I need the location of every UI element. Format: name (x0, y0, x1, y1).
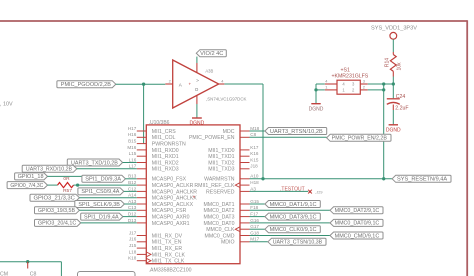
svg-text:F17: F17 (250, 212, 258, 217)
svg-text:MMC0_CMD/9,1C: MMC0_CMD/9,1C (335, 233, 380, 239)
flag MMC0_CMD/9,1C (330, 232, 383, 239)
svg-text:RESERVED: RESERVED (206, 189, 235, 195)
S1 pin 2 (360, 89, 368, 91)
U10 pin K17 MII1_TXD0 (208, 145, 259, 154)
U10 pin B15 PWRONRSTN (128, 139, 186, 148)
svg-text:CM: CM (0, 271, 8, 276)
wire MMC0_DAT0 to flag (250, 222, 331, 224)
svg-text:PMIC_POWR_EN/2,2B: PMIC_POWR_EN/2,2B (332, 136, 388, 142)
svg-text:.TESTOUT: .TESTOUT (280, 187, 305, 193)
flag GPIO3_21/3,3C (30, 194, 79, 201)
sheet frame right border (466, 20, 468, 276)
svg-text:UART3_RXD/10,2B: UART3_RXD/10,2B (26, 167, 73, 173)
junction S1 net / SYS_RESETN (382, 177, 385, 180)
svg-text:MCASP0_AHCLKR: MCASP0_AHCLKR (152, 189, 198, 195)
flag SPI1_D0/9,3A (82, 175, 126, 182)
flag MMC0_DAT3/9,1C (265, 213, 320, 220)
svg-text:J16: J16 (129, 237, 137, 242)
wire S1 pin4 left (316, 83, 325, 85)
wire C24 to DGND (392, 110, 394, 124)
junction S1 left pins (314, 88, 317, 91)
wire MMC0_DAT2 to flag (250, 209, 331, 211)
U10 pin M17 MDIO (221, 237, 260, 246)
wire WARMRSTN row to SYS_RESETN flag (250, 178, 393, 180)
svg-text:MCASP0_AXR0: MCASP0_AXR0 (152, 215, 190, 221)
U10 pin K15 MII1_TXD2 (208, 157, 259, 166)
junction bottom-left (26, 260, 29, 263)
wire UART3_RXD to pin L17 (77, 168, 137, 170)
U10 pin G15 MMC0_DAT1 (203, 199, 259, 208)
svg-text:MMC0_DAT2/9,1C: MMC0_DAT2/9,1C (335, 208, 380, 214)
svg-text:MII1_TX_CLK: MII1_TX_CLK (152, 259, 185, 265)
svg-text:A10: A10 (250, 174, 259, 179)
ground DGND (above U10) (190, 118, 205, 126)
svg-text:J17: J17 (129, 230, 137, 235)
U10 pin L16 MII1_RXD2 (129, 157, 179, 166)
svg-text:0R: 0R (63, 176, 70, 182)
svg-text:K18: K18 (128, 256, 137, 261)
wire MMC0_DAT1 to flag (250, 203, 265, 205)
U10 pin J17 MII1_RX_DV (129, 230, 183, 239)
wire GPIO1_18 to SPI1_D0 flag (48, 175, 83, 177)
wire S1 pin4 down (315, 84, 317, 90)
svg-text:M18: M18 (250, 126, 259, 131)
svg-text:>: > (196, 78, 199, 84)
flag PMIC_PGOOD/2,2B (57, 81, 116, 88)
svg-text:MMC0_DAT0/9,1C: MMC0_DAT0/9,1C (335, 221, 380, 227)
svg-text:MMC0_DAT0: MMC0_DAT0 (203, 221, 234, 227)
U10 pin H17 MII1_CRS (128, 126, 176, 135)
svg-text:L15: L15 (129, 151, 137, 156)
wire R57 to junction (74, 184, 78, 186)
U10 pin C13 MCASP0_FSR (128, 205, 187, 214)
U10 pin D12 MCASP0_AXR0 (128, 212, 190, 221)
U10 pin M16 MII1_RXD0 (127, 145, 178, 154)
svg-text:MII1_CRS: MII1_CRS (152, 129, 176, 135)
svg-text:SPI1_D1/9,4A: SPI1_D1/9,4A (84, 214, 119, 220)
svg-text:SYS_VDD1_3P3V: SYS_VDD1_3P3V (371, 26, 417, 32)
wire SPI1_SCLK to pin A13 (124, 203, 136, 205)
U10 pin A13 MCASP0_ACLKX (128, 199, 193, 208)
junction SPI1_CS0 net (76, 183, 79, 186)
svg-text:K17: K17 (250, 145, 259, 150)
wire gate output down (262, 84, 264, 179)
svg-text:MII1_RX_DV: MII1_RX_DV (152, 233, 183, 239)
svg-text:MII1_RXD0: MII1_RXD0 (152, 148, 179, 154)
wire bottom-left vertical (60, 262, 62, 276)
gate output pin 4 (219, 83, 225, 85)
wire supply to R14 (392, 39, 394, 52)
svg-text:MCASP0_AXR1: MCASP0_AXR1 (152, 221, 190, 227)
U10 pin A10 WARMRSTN (204, 174, 259, 183)
flag SYS_RESETN/9,4A (392, 175, 451, 182)
op-amp gate A3B SN74LVC1G97DCK (165, 60, 246, 108)
wire GPIO0_7 to R57 (48, 184, 58, 186)
svg-text:D13: D13 (128, 218, 137, 223)
U10 pin A14 MCASP0_AHCLKX (128, 193, 197, 202)
U10 pin L15 MII1_RXD1 (129, 151, 179, 160)
wire SPI1_CS0 to pin C12 (124, 190, 137, 192)
svg-text:MMC0_DAT3: MMC0_DAT3 (203, 215, 234, 221)
svg-text:MDC: MDC (223, 129, 235, 135)
U10 pin K18 MII1_TX_CLK (128, 256, 185, 265)
svg-text:MII1_RX_ER: MII1_RX_ER (152, 246, 183, 252)
wire MMC0_CMD to flag (250, 235, 331, 237)
svg-text:PMIC_POWER_EN: PMIC_POWER_EN (189, 135, 235, 141)
U10 pin K16 MII1_TXD1 (208, 151, 259, 160)
wire MMC0_CLK to flag (250, 228, 265, 230)
gate input pin 2 (165, 83, 172, 85)
svg-text:K16: K16 (250, 151, 259, 156)
svg-text:MII1_TXD2: MII1_TXD2 (208, 160, 234, 166)
ground DGND (below S1) (309, 104, 324, 113)
U10 pin L18 MII1_RX_CLK (129, 249, 186, 258)
clipped flag bottom centre (78, 272, 136, 276)
svg-text:DGND: DGND (386, 127, 401, 133)
U10 pin B12 MCASP0_ACLKR (128, 180, 193, 189)
svg-text:C12: C12 (128, 186, 137, 191)
svg-text:B13: B13 (128, 174, 137, 179)
U10 pin D13 MCASP0_AXR1 (128, 218, 190, 227)
U10 pin G18 MMC0_CMD (205, 230, 260, 239)
flag UART3_RXD/10,2B (22, 165, 77, 172)
svg-text:K15: K15 (250, 157, 259, 162)
wire gate top pin to VIO/2 flag (196, 57, 198, 63)
svg-text:MCASP0_AHCLKX: MCASP0_AHCLKX (152, 196, 198, 202)
wire SPI1_D0 to pin B13 (125, 178, 136, 180)
wire S1 net down to SYS_RESETN (383, 84, 385, 179)
U10 pin A3 RESERVED (206, 186, 256, 195)
svg-text:H18: H18 (250, 180, 259, 185)
S1 pin 1 (325, 89, 337, 91)
svg-text:MII1_TX_EN: MII1_TX_EN (152, 240, 182, 246)
flag UART3_TXD/10,2B (67, 159, 122, 166)
wire gate bottom pin to DGND (196, 104, 198, 118)
wire S1 pin2 right (368, 89, 384, 91)
svg-text:.U10/3B6: .U10/3B6 (149, 120, 170, 126)
S1 pin 4 (325, 83, 337, 85)
svg-text:L16: L16 (129, 157, 137, 162)
svg-text:GPIO1_18: GPIO1_18 (18, 174, 44, 180)
svg-text:UART3_CTSN/10,3B: UART3_CTSN/10,3B (273, 240, 323, 246)
svg-text:MMC0_CLK0/9,1C: MMC0_CLK0/9,1C (270, 227, 317, 233)
wire GPIO3_19 to pin C13 (79, 209, 136, 211)
svg-text:UART3_TXD/10,2B: UART3_TXD/10,2B (71, 160, 118, 166)
U10 pin F18 MMC0_DAT2 (203, 205, 258, 214)
IC U10 AM3358BZCZ100 body (146, 125, 240, 264)
svg-text:SPI1_D0/9,3A: SPI1_D0/9,3A (85, 177, 121, 183)
U10 pin J18 MII1_TXD3 (208, 164, 258, 173)
U10 pin H16 MII1_COL (128, 132, 176, 141)
wire UART3_TXD to pin L16 (123, 162, 137, 164)
svg-text:A3: A3 (250, 186, 256, 191)
wire SPI1_D1 to pin D12 (123, 216, 137, 218)
svg-text:MMC0_DAT2: MMC0_DAT2 (203, 208, 234, 214)
svg-text:MMC0_DAT3/9,1C: MMC0_DAT3/9,1C (270, 214, 317, 220)
flag UART3_CTSN/10,3B (268, 238, 326, 245)
svg-text:MII1_RXD3: MII1_RXD3 (152, 167, 179, 173)
svg-text:SPI1_SCLK/9,3B: SPI1_SCLK/9,3B (78, 202, 120, 208)
svg-text:GPIO3_19/3,5B: GPIO3_19/3,5B (38, 208, 76, 214)
svg-text:MCASP0_ACLKX: MCASP0_ACLKX (152, 202, 194, 208)
gate top pin 5 (196, 63, 198, 73)
wire bottom-left horizontal (0, 261, 61, 263)
svg-text:L18: L18 (129, 249, 137, 254)
wire S1 pin1 left (316, 89, 325, 91)
svg-text:L17: L17 (129, 164, 137, 169)
switch S1 KMR231GLFS (325, 68, 369, 95)
svg-text:2.2uF: 2.2uF (395, 106, 408, 112)
U10 pin C12 MCASP0_AHCLKR (128, 186, 197, 195)
flag MMC0_DAT0/9,1C (330, 219, 383, 226)
flag SPI1_SCLK/9,3B (75, 201, 125, 208)
ground DGND (below C24) (386, 125, 401, 134)
wire to DGND under S1 (315, 90, 317, 103)
junction S1 pin3 / vertical net (382, 82, 385, 85)
svg-text:MMC0_DAT1: MMC0_DAT1 (203, 202, 234, 208)
wire junction to pin B12 (78, 184, 137, 186)
svg-text:A14: A14 (128, 193, 137, 198)
flag PMIC_POWR_EN/2,2B (327, 134, 391, 141)
svg-text:, 10V: , 10V (0, 101, 13, 107)
supply pin circle SYS_VDD1_3P3V (390, 32, 397, 39)
svg-text:10k: 10k (396, 62, 402, 71)
svg-text:VIO/2 4C: VIO/2 4C (200, 51, 223, 57)
sheet frame top border (0, 20, 467, 22)
svg-text:PMIC_PGOOD/2,2B: PMIC_PGOOD/2,2B (61, 82, 112, 88)
wire GPIO3_20 to pin D13 (81, 222, 137, 224)
pin stub below bottom-left junction (27, 262, 29, 269)
svg-text:MII1_RXD2: MII1_RXD2 (152, 160, 179, 166)
wire S1 pin3 to R14 junction (368, 83, 394, 85)
U10 pin F17 MMC0_DAT3 (203, 212, 258, 221)
no-connect cross on TESTOUT (308, 190, 312, 194)
wire GPIO3_21 to pin A14 (79, 197, 136, 199)
svg-text:A3B: A3B (205, 69, 213, 74)
svg-text:C24: C24 (396, 94, 406, 100)
wire pin A3 to TESTOUT (250, 190, 309, 192)
resistor R14 10k (385, 52, 403, 77)
svg-text:SYS_RESETN/9,4A: SYS_RESETN/9,4A (397, 177, 448, 183)
wire R14 to junction (392, 77, 394, 85)
svg-text:R57: R57 (63, 188, 72, 194)
svg-text:B12: B12 (128, 180, 137, 185)
svg-text:G17: G17 (250, 224, 259, 229)
wire PMIC_PGOOD to gate input (116, 83, 166, 85)
U10 pin L17 MII1_RXD3 (129, 164, 179, 173)
resistor R57 0R (58, 176, 74, 194)
capacitor C24 2.2uF (387, 94, 409, 112)
junction R14/S1 pin3 (392, 82, 395, 85)
svg-text:C8: C8 (30, 271, 37, 276)
U10 pin B13 MCASP0_FSX (128, 174, 187, 183)
svg-text:MCASP0_FSX: MCASP0_FSX (152, 177, 187, 183)
svg-text:SPI1_CS0/9,4A: SPI1_CS0/9,4A (81, 189, 120, 195)
svg-text:GPIO0_7/4,3C: GPIO0_7/4,3C (10, 183, 43, 189)
junction gate output / SYS_RESETN (261, 177, 264, 180)
svg-text:G15: G15 (250, 199, 259, 204)
svg-text:MII1_RXD1: MII1_RXD1 (152, 154, 179, 160)
svg-text:MII1_TXD1: MII1_TXD1 (208, 154, 234, 160)
svg-text:G18: G18 (250, 230, 259, 235)
svg-text:G16: G16 (250, 218, 259, 223)
wire gate output right (224, 83, 263, 85)
svg-text:H17: H17 (128, 126, 137, 131)
svg-text:R14: R14 (385, 58, 391, 67)
svg-text:.AM3358BZCZ100: .AM3358BZCZ100 (149, 267, 192, 273)
svg-text:M17: M17 (250, 237, 259, 242)
flag GPIO3_19/3,5B (35, 207, 80, 214)
svg-text:D12: D12 (128, 212, 137, 217)
U10 pin H18 RMII1_REF_CLK (194, 180, 259, 189)
svg-text:C13: C13 (128, 205, 137, 210)
wire MMC0_DAT3 to flag (250, 216, 265, 218)
U10 pin C8 PMIC_POWER_EN (189, 132, 257, 141)
svg-text:GPIO3_20/4,1C: GPIO3_20/4,1C (38, 221, 77, 227)
svg-text:MII1_RX_CLK: MII1_RX_CLK (152, 252, 186, 258)
U10 pin M18 MDC (223, 126, 260, 135)
U10 pin J16 MII1_TX_EN (129, 237, 182, 246)
flag SPI1_CS0/9,4A (78, 188, 124, 195)
svg-text:C8: C8 (250, 132, 256, 137)
svg-text:MCASP0_ACLKR: MCASP0_ACLKR (152, 183, 194, 189)
flag MMC0_DAT1/9,1C (265, 201, 320, 208)
svg-text:B15: B15 (128, 139, 137, 144)
svg-text:MMC0_CLK: MMC0_CLK (206, 227, 235, 233)
svg-text:J18: J18 (250, 164, 258, 169)
junction S1 pin2 / vertical net (382, 88, 385, 91)
svg-text:A13: A13 (128, 199, 137, 204)
svg-text:UART3_RTSN/10,2B: UART3_RTSN/10,2B (270, 129, 323, 135)
flag SPI1_D1/9,4A (81, 213, 123, 220)
U10 pin G16 MMC0_DAT0 (203, 218, 259, 227)
gate bottom pin 3 (196, 95, 198, 104)
svg-text:+: + (188, 82, 191, 87)
flag UART3_RTSN/10,2B (265, 128, 327, 135)
svg-text:WARMRSTN: WARMRSTN (204, 177, 235, 183)
flag VIO/2 4C (196, 50, 226, 57)
svg-text:MMC0_CMD: MMC0_CMD (205, 233, 235, 239)
U10 pin J15 MII1_RX_ER (129, 243, 182, 252)
svg-text:MMC0_DAT1/9,1C: MMC0_DAT1/9,1C (270, 202, 317, 208)
S1 pin 3 (360, 83, 368, 85)
svg-text:M16: M16 (127, 145, 136, 150)
flag MMC0_DAT2/9,1C (330, 207, 383, 214)
wire MDIO to UART3_CTSN flag (250, 241, 268, 243)
flag GPIO3_20/4,1C (35, 219, 81, 226)
svg-text:F18: F18 (250, 205, 258, 210)
wire junction to C24 (392, 84, 394, 98)
flag GPIO0_7/4,3C (7, 182, 47, 189)
svg-text:MII1_TXD0: MII1_TXD0 (208, 148, 234, 154)
svg-text:,SN74LVC1G97DCK: ,SN74LVC1G97DCK (206, 97, 246, 102)
svg-text:,J29: ,J29 (315, 190, 322, 194)
svg-text:RMII1_REF_CLK: RMII1_REF_CLK (194, 183, 235, 189)
svg-text:O: O (195, 87, 199, 92)
svg-text:DGND: DGND (309, 106, 324, 112)
U10 pin G17 MMC0_CLK (206, 224, 259, 233)
svg-text:MCASP0_FSR: MCASP0_FSR (152, 208, 187, 214)
svg-text:PWRONRSTN: PWRONRSTN (152, 142, 186, 148)
wire PMIC_POWER_EN to flag (250, 136, 327, 138)
svg-text:MII1_TXD3: MII1_TXD3 (208, 167, 234, 173)
flag GPIO1_18 (15, 173, 48, 180)
svg-text:MII1_COL: MII1_COL (152, 135, 176, 141)
wire MDC to UART3_RTSN flag (250, 130, 265, 132)
svg-text:J15: J15 (129, 243, 137, 248)
svg-text:GPIO3_21/3,3C: GPIO3_21/3,3C (34, 196, 76, 202)
svg-text:H16: H16 (128, 132, 137, 137)
flag MMC0_CLK0/9,1C (265, 226, 320, 233)
svg-text:MDIO: MDIO (221, 240, 235, 246)
wire PMIC_PGOOD down to PWRONRSTN (143, 84, 145, 143)
junction PMIC_PGOOD branch (142, 83, 145, 86)
